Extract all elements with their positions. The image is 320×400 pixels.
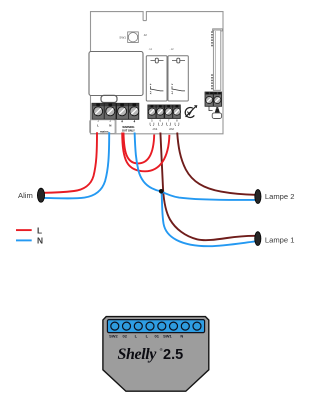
wire blue branch to Lampe 2 — [161, 191, 256, 200]
Shelly terminal labels — [109, 333, 183, 338]
warning out only label — [121, 120, 135, 132]
mains group box — [89, 120, 115, 134]
button SW1 — [128, 32, 139, 43]
relay K1 — [146, 56, 167, 101]
svg-text:N: N — [37, 236, 43, 246]
wire maroon ch2 to Lampe 2 — [177, 133, 256, 195]
svg-text:01: 01 — [154, 333, 159, 338]
svg-text:OUT ONLY: OUT ONLY — [122, 129, 135, 132]
terminal block ch1/ch2 (screws 5-8) — [148, 105, 181, 118]
Shelly terminal strip — [107, 320, 204, 333]
svg-text:··k2: ··k2 — [170, 48, 175, 51]
PCB board outline with top notch — [91, 12, 224, 134]
svg-text:L: L — [37, 225, 42, 235]
wire red mains L to Alim — [43, 132, 97, 193]
svg-text:Shelly: Shelly — [118, 346, 158, 363]
svg-text:SW1: SW1 — [119, 35, 126, 39]
wire maroon ch1 to Lampe 1 — [160, 133, 255, 241]
junction dot — [159, 189, 164, 194]
svg-text:J2: J2 — [144, 33, 148, 37]
Alim cable end — [37, 188, 44, 202]
svg-text:mains: mains — [100, 130, 109, 134]
svg-text:N: N — [109, 124, 111, 128]
svg-text:SW2: SW2 — [109, 333, 118, 338]
WEEE/recycle icon — [185, 106, 197, 118]
wire blue neutral to lamps (down from OUT) — [135, 133, 161, 192]
svg-text:··k1: ··k1 — [148, 48, 153, 51]
svg-text:SW1: SW1 — [163, 333, 172, 338]
Lampe 2 cable end — [255, 190, 261, 204]
svg-text:WARNING: WARNING — [122, 126, 134, 129]
wire blue mains N to Alim — [43, 132, 109, 198]
Lampe 1 cable end — [255, 232, 261, 246]
svg-text:Alim: Alim — [18, 191, 33, 200]
legend N (blue) — [16, 239, 32, 241]
svg-text:Lampe 2: Lampe 2 — [265, 192, 295, 201]
svg-text:ch1: ch1 — [153, 127, 158, 131]
svg-text:L: L — [97, 124, 99, 128]
Shelly logo — [118, 346, 184, 363]
svg-text:Lampe 1: Lampe 1 — [265, 235, 295, 244]
wire blue branch to Lampe 1 — [162, 191, 256, 246]
ch1/ch2 terminal labels — [150, 119, 179, 131]
terminal block aux (2 screws) — [205, 92, 222, 106]
legend L (red) — [16, 229, 32, 231]
svg-text:ch2: ch2 — [169, 127, 174, 131]
wire red jumper OUT to ch2 — [122, 133, 169, 172]
buzzer/antenna component — [209, 106, 222, 118]
svg-text:02: 02 — [122, 333, 127, 338]
svg-text:2.5: 2.5 — [163, 347, 183, 363]
terminal block mains/out (screws 1-4) — [92, 103, 139, 119]
svg-text:N: N — [180, 333, 183, 338]
mains terminal labels — [97, 119, 111, 134]
transformer T1 — [89, 52, 143, 96]
wire red jumper OUT to ch1 — [124, 133, 155, 164]
connector tab below transformer — [101, 95, 117, 102]
relay K2 — [168, 56, 188, 101]
Shelly terminal holes — [111, 322, 201, 330]
pin header J3 — [211, 29, 222, 91]
Shelly 2.5 device body — [103, 317, 209, 392]
